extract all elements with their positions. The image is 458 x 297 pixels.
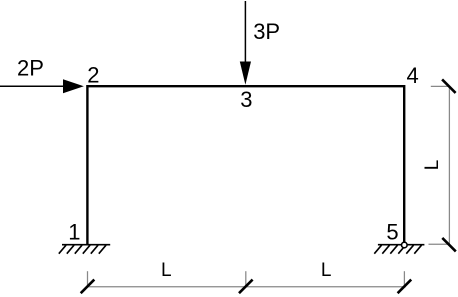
bottom dimension: left tick xyxy=(81,280,95,294)
load 2P: arrow shaft xyxy=(0,85,64,87)
frame members: columns 1-2, beam 2-4, column 4-5 xyxy=(87,86,404,244)
pinned support at node 5: hinge circle xyxy=(402,242,408,248)
bottom dimension: middle tick xyxy=(239,280,253,294)
bottom dimension: dimension line xyxy=(86,271,406,287)
svg-text:L: L xyxy=(321,260,332,281)
load 3P: arrow shaft xyxy=(244,1,246,63)
pinned support at node 5: ground line xyxy=(378,244,425,246)
fixed support at node 1: ground line xyxy=(62,244,110,246)
svg-text:5: 5 xyxy=(386,220,398,245)
svg-text:2: 2 xyxy=(87,62,99,87)
svg-text:L: L xyxy=(422,160,443,171)
svg-text:2P: 2P xyxy=(17,55,44,80)
right vertical dimension: extension and dimension lines xyxy=(429,86,450,244)
load 3P: arrowhead xyxy=(240,62,251,85)
svg-text:L: L xyxy=(161,260,172,281)
svg-text:3: 3 xyxy=(240,87,252,112)
right dimension: top tick xyxy=(442,79,456,93)
svg-text:4: 4 xyxy=(407,63,419,88)
load 2P: arrowhead xyxy=(63,79,84,93)
bottom dimension: right tick xyxy=(398,280,412,294)
svg-text:3P: 3P xyxy=(253,19,280,44)
svg-text:1: 1 xyxy=(68,220,80,245)
fixed support at node 1: hatching xyxy=(59,245,106,254)
right dimension: bottom tick xyxy=(442,238,456,252)
pinned support at node 5: hatching xyxy=(374,245,421,254)
